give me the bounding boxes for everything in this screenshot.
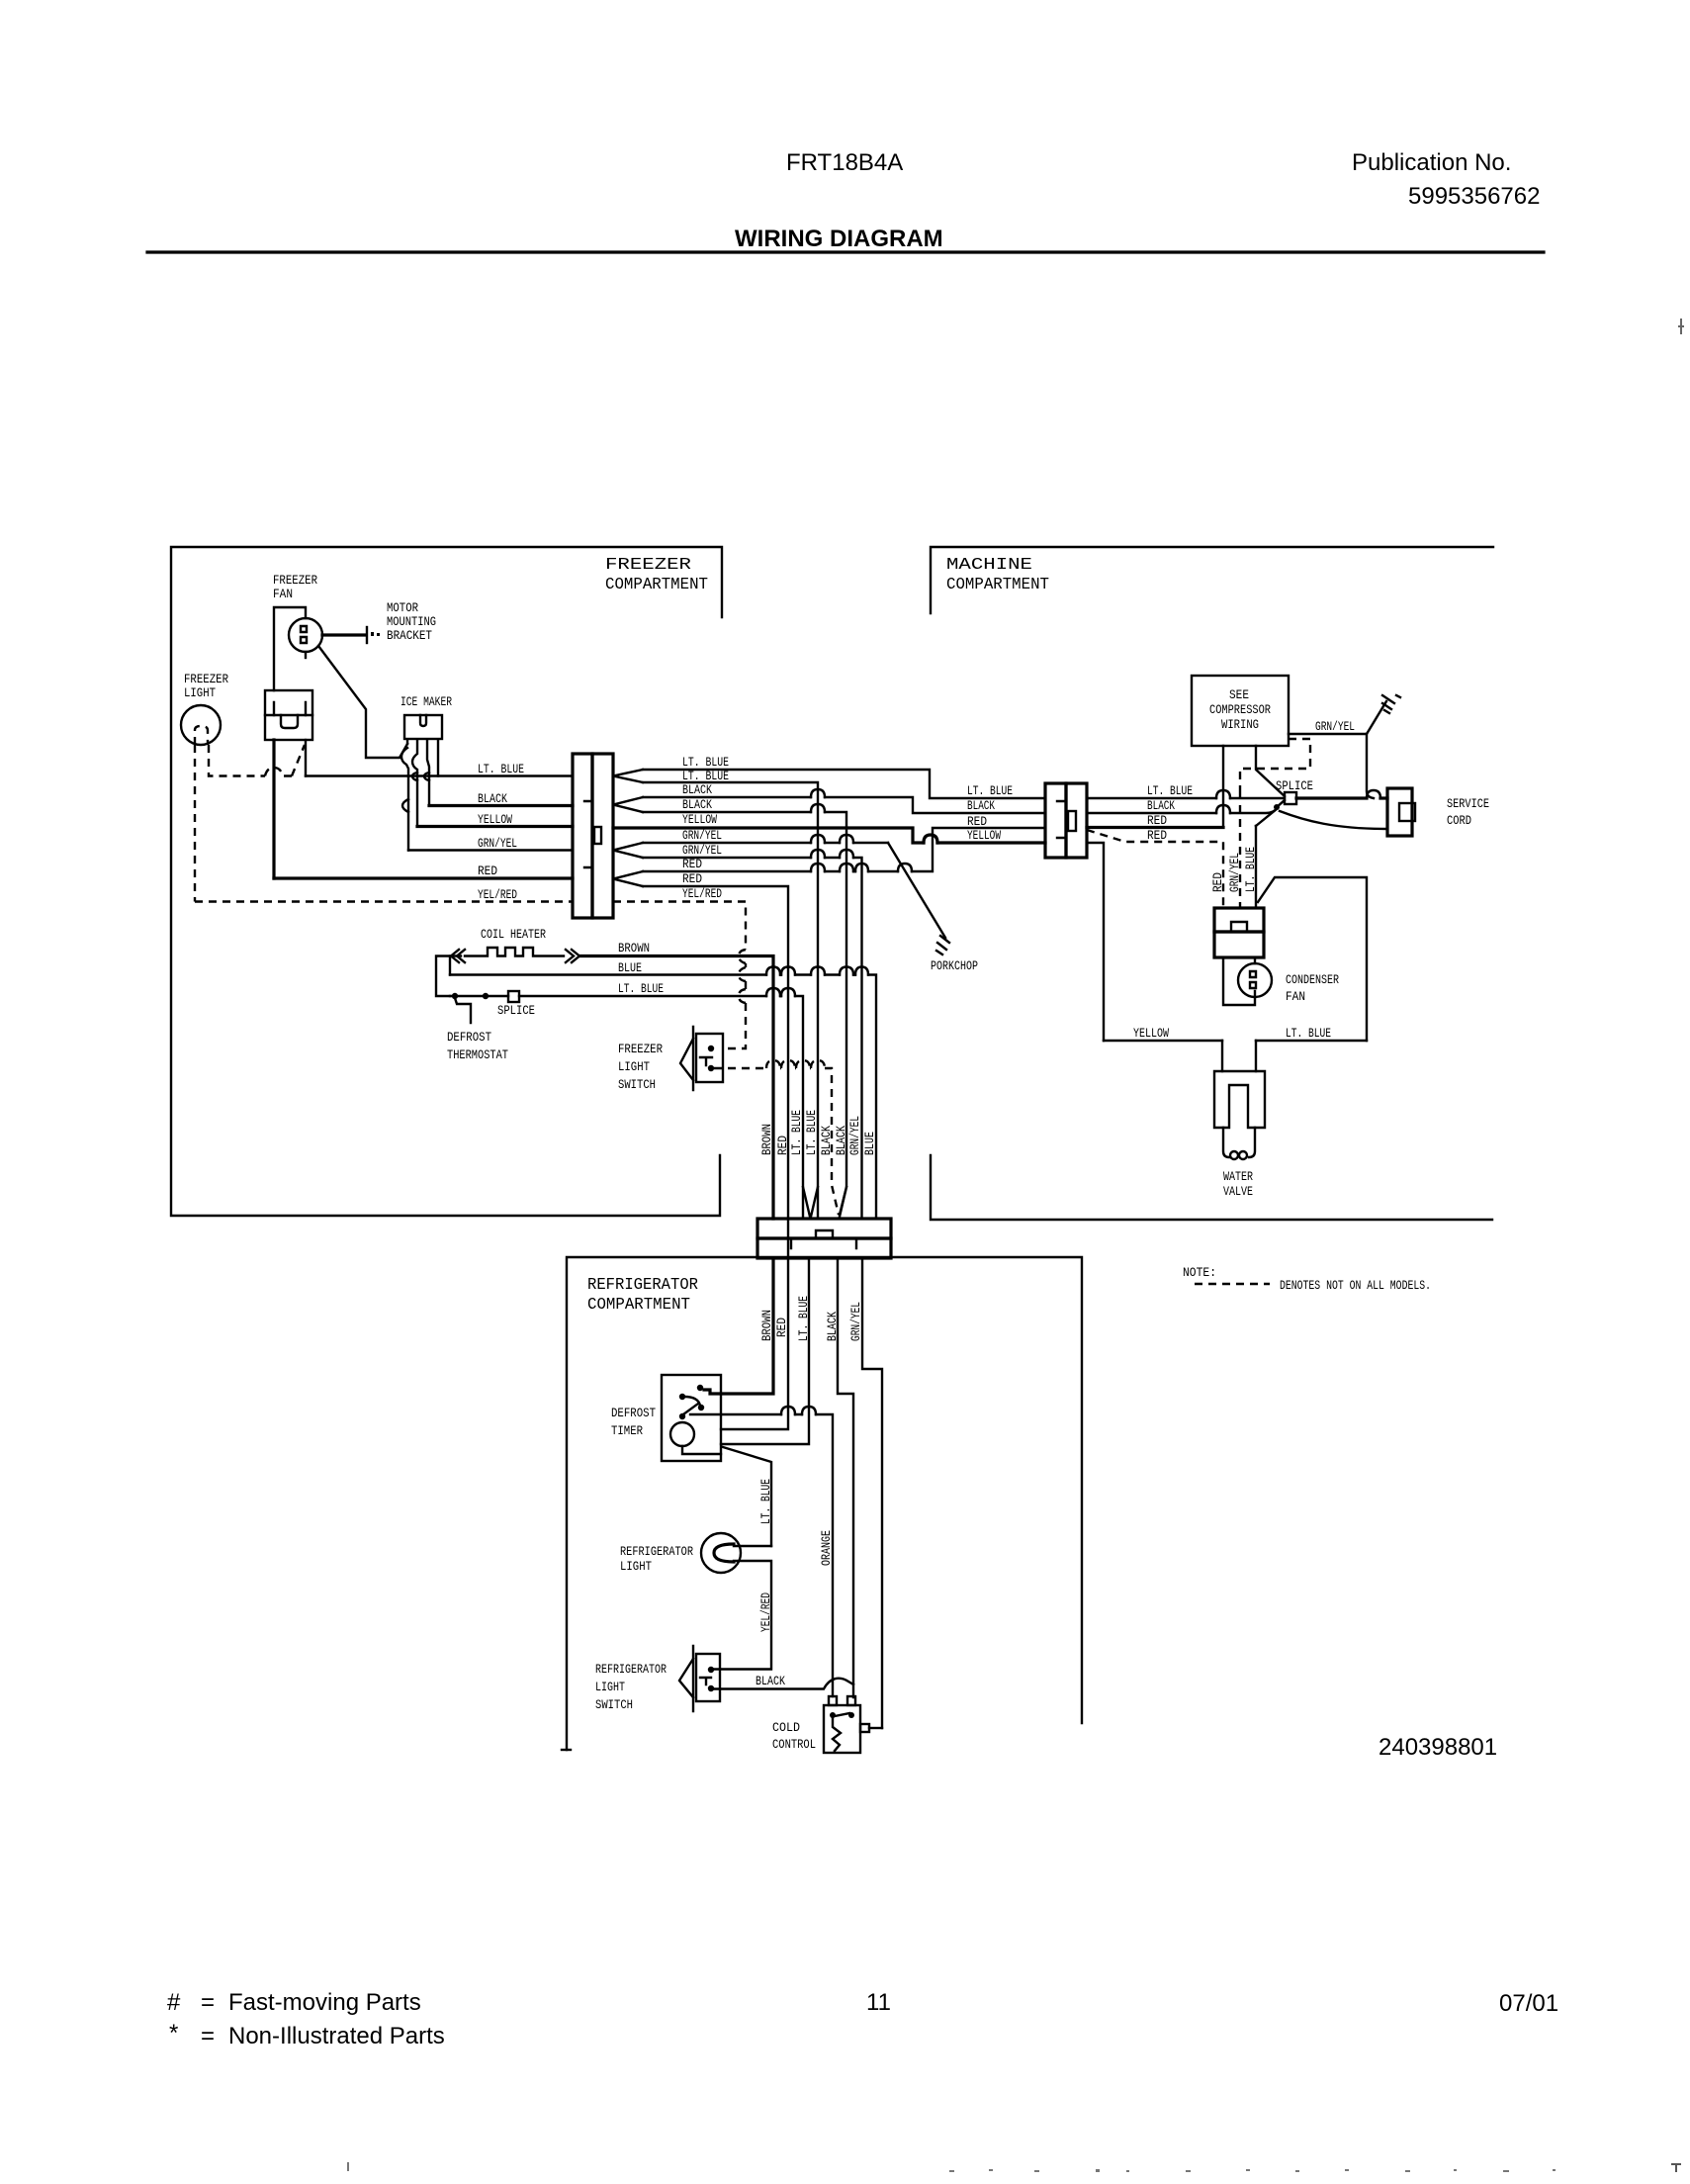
svg-text:COIL HEATER: COIL HEATER [481,927,546,942]
compressor lead vertical to splice [1256,746,1285,796]
svg-text:GRN/YEL: GRN/YEL [1315,719,1355,734]
svg-text:YELLOW: YELLOW [1133,1026,1169,1041]
yellow hop over red vertical [924,835,937,843]
service line from splice to service cord [1296,796,1387,799]
svg-text:LT. BLUE: LT. BLUE [478,762,524,776]
svg-text:SWITCH: SWITCH [618,1077,656,1092]
condenser fan connector [1214,908,1264,932]
yel/red dashed wire to freezer light switch [613,902,746,1049]
svg-text:YEL/RED: YEL/RED [758,1592,773,1632]
scanner noise right edge mark [1678,318,1684,334]
svg-text:FAN: FAN [1286,989,1305,1004]
freezer light switch contact mark [700,1057,712,1065]
freezer fan connector block [265,690,312,740]
lt.blue heater row hop arcs [766,988,780,996]
lower connector key notch [816,1230,833,1238]
svg-text:COMPARTMENT: COMPARTMENT [587,1296,690,1315]
water valve stem wires [1222,1041,1256,1071]
svg-text:CORD: CORD [1447,813,1471,828]
svg-text:PORKCHOP: PORKCHOP [931,958,978,973]
freezer light switch body [696,1034,723,1082]
sweeping black wire to service cord lower pin [1280,811,1387,829]
svg-text:COMPARTMENT: COMPARTMENT [946,576,1049,594]
svg-text:RED: RED [682,871,702,886]
junction dot defrost thermostat right [483,993,489,999]
freezer light dashed lead to yel/red wire [194,745,196,902]
freezer fan motor circle [289,618,322,652]
blue wire vertical stub [449,956,451,975]
svg-text:LIGHT: LIGHT [595,1680,625,1694]
svg-text:SWITCH: SWITCH [595,1697,633,1712]
svg-text:BLACK: BLACK [682,782,712,797]
porkchop hatch marks [936,936,949,955]
see compressor wiring box [1192,676,1289,746]
lower connector pin marks [791,1238,856,1248]
svg-text:BLACK: BLACK [478,791,507,806]
svg-text:SEE: SEE [1229,687,1249,702]
porkchop diagonal lead [888,843,945,938]
svg-text:GRN/YEL: GRN/YEL [478,836,517,851]
red wire machine right [1087,826,1223,829]
svg-text:THERMOSTAT: THERMOSTAT [447,1047,508,1062]
ice maker pin 3 wire to black row [427,740,429,806]
svg-text:BLACK: BLACK [819,1126,834,1155]
cold control top pins [829,1696,837,1705]
compressor dashed grn/yel path [1240,739,1310,791]
svg-text:BLACK: BLACK [834,1126,848,1155]
cold control terminal dots [830,1712,836,1718]
svg-text:240398801: 240398801 [1379,1734,1497,1761]
svg-text:LT. BLUE: LT. BLUE [804,1110,819,1155]
svg-text:BROWN: BROWN [618,941,650,955]
svg-text:COMPARTMENT: COMPARTMENT [605,576,708,594]
black wire row (freezer side) [429,804,573,807]
cold control bellows zigzag [833,1718,841,1751]
fan connector pin marks [274,702,306,715]
brown wire down to defrost timer [704,1258,773,1394]
lower harness connector block [757,1219,891,1238]
ice maker pin 2 wire to yellow row [412,740,417,827]
grn/yel wire 1 to porkchop [643,842,888,844]
ice maker key notch [420,715,426,726]
svg-text:DENOTES NOT ON ALL MODELS.: DENOTES NOT ON ALL MODELS. [1280,1278,1431,1293]
switch terminal dots [708,1667,714,1673]
switch contact mark [700,1678,711,1684]
coil heater disconnect arrows left [451,950,465,962]
freezer light switch terminal dots [708,1046,714,1051]
lt. blue wire down to timer and refrigerator light [721,1258,809,1444]
coil heater element [465,948,564,956]
diagonal from junction down to condenser lt.blue [1256,809,1277,826]
fan connector left pin wire down to red row [272,740,275,878]
wedge splice lt.blue pair [613,770,643,782]
lt. blue wire 2 down to refrigerator [643,782,818,1218]
black wire 1 to machine compartment [643,797,1045,813]
pin 2 hop arc [412,773,417,780]
svg-text:BLUE: BLUE [862,1132,877,1155]
motor mounting bracket lead [322,633,366,636]
svg-text:YELLOW: YELLOW [478,812,512,827]
grn/yel chassis ground wire [1289,701,1386,734]
machine connector pin marks [1057,801,1066,838]
wedge splice grn/yel pair [613,843,643,858]
svg-text:ORANGE: ORANGE [819,1530,834,1566]
freezer light bulb circle [181,705,221,745]
switch output dashed hop arcs [766,1060,780,1068]
machine harness connector block [1045,783,1066,858]
svg-text:YEL/RED: YEL/RED [682,886,722,901]
coil heater disconnect arrows right [566,950,579,962]
orange wire hop arcs [781,1407,795,1414]
black wire 1 hop over lt.blue2 vertical [811,789,825,797]
timer lever [683,1404,698,1414]
svg-text:LIGHT: LIGHT [620,1559,652,1574]
svg-text:DEFROST: DEFROST [611,1406,656,1420]
grn/yel drop to service line [1367,734,1374,798]
svg-text:BLACK: BLACK [682,797,712,812]
red wire 1 up to machine compartment [643,828,1045,871]
blue wire row to bundle [450,975,876,1220]
svg-text:REFRIGERATOR: REFRIGERATOR [587,1276,698,1295]
cold control body [824,1705,860,1753]
svg-text:GRN/YEL: GRN/YEL [848,1302,863,1341]
svg-text:5995356762: 5995356762 [1408,183,1540,210]
svg-text:COLD: COLD [772,1720,800,1735]
splice square [1285,792,1296,804]
svg-text:YEL/RED: YEL/RED [478,887,517,902]
lt. blue wire 1 to machine compartment [643,770,1045,798]
machine compartment border [931,547,1493,613]
fan motor diagonal feed to ice maker [318,646,407,758]
condenser connector key notch [1231,922,1247,932]
svg-text:CONTROL: CONTROL [772,1737,816,1752]
grn/yel wire 2 down to refrigerator [643,858,862,1218]
svg-text:RED: RED [478,864,497,878]
svg-text:LT. BLUE: LT. BLUE [758,1479,773,1524]
header rule line [147,250,1544,253]
diagonal from junction to splice [1277,800,1285,807]
dashed grn/yel vertical to condenser connector [1239,791,1241,908]
refrigerator light switch lever [679,1659,693,1697]
svg-text:FRT18B4A: FRT18B4A [786,149,903,176]
svg-text:RED: RED [1147,813,1167,828]
compressor red lead vertical [1222,746,1224,828]
svg-text:REFRIGERATOR: REFRIGERATOR [620,1544,693,1559]
water valve body [1214,1071,1265,1128]
svg-text:LT. BLUE: LT. BLUE [618,981,664,996]
red wire down to defrost timer [721,1258,788,1429]
svg-text:REFRIGERATOR: REFRIGERATOR [595,1662,667,1677]
dashed diagonal to fan connector pin [292,745,305,776]
grn/yel wire down with jog [862,1258,882,1728]
svg-text:11: 11 [866,1989,891,2016]
freezer fan motor winding symbol [301,626,307,643]
svg-text:DEFROST: DEFROST [447,1030,491,1045]
svg-text:GRN/YEL: GRN/YEL [682,828,722,843]
svg-text:LT. BLUE: LT. BLUE [789,1110,804,1155]
svg-text:Fast-moving Parts: Fast-moving Parts [228,1989,421,2016]
loop from condenser lt.blue around to water valve [1258,877,1367,1041]
svg-text:RED: RED [1210,872,1225,892]
svg-text:Publication No.: Publication No. [1352,149,1511,176]
svg-text:RED: RED [682,857,702,871]
fan connector key notch [281,715,298,728]
svg-text:CONDENSER: CONDENSER [1286,972,1339,987]
svg-text:LT. BLUE: LT. BLUE [1147,783,1193,798]
lt. blue wire machine right [1087,797,1285,799]
svg-text:LT. BLUE: LT. BLUE [1286,1026,1331,1041]
defrost timer box [662,1375,721,1461]
svg-text:LT. BLUE: LT. BLUE [682,755,729,770]
ice maker pin 4 wire joining lt.blue row [437,740,439,776]
black bundle wires converge to connector pin [840,1187,846,1217]
wedge splice black pair [613,797,643,812]
ice maker body [404,715,442,739]
black wire from switch to cold control [714,1679,853,1689]
freezer light bulb element (dashed) [195,726,208,745]
yellow loop leg from connector [1087,843,1104,1041]
svg-text:LIGHT: LIGHT [618,1059,650,1074]
chassis ground hatch marks [1382,695,1394,713]
refrigerator light switch plate [692,1646,694,1711]
black wire 2 down to refrigerator [643,812,846,1215]
lt.blue bundle wires converge to connector pin [803,1187,818,1217]
machine connector key notch [1068,811,1076,831]
lt. blue branch diagonal to refrigerator light [723,1447,771,1546]
timer contact arc [684,1397,700,1406]
svg-text:BROWN: BROWN [759,1124,774,1155]
red wire 2 down to refrigerator [643,886,788,1258]
svg-text:BLACK: BLACK [967,798,995,813]
junction dot defrost thermostat left [452,993,458,999]
svg-text:WIRING: WIRING [1221,717,1259,732]
pin 1 hop arcs [402,799,408,812]
svg-text:SERVICE: SERVICE [1447,796,1489,811]
motor mounting bracket symbol [366,627,368,643]
service line hop at grn/yel junction [1367,790,1380,798]
svg-text:BLUE: BLUE [618,960,642,975]
pin 3 hop arc [424,773,429,780]
svg-text:NOTE:: NOTE: [1183,1265,1216,1280]
connector key marks [584,801,592,867]
black wire machine right [1087,808,1277,813]
red dashed wire machine right [1087,830,1223,908]
bottom loop wires [1104,1040,1367,1042]
svg-text:LT. BLUE: LT. BLUE [967,783,1013,798]
dashed hop over fan wire [265,768,292,776]
wedge splice red pair [613,871,643,886]
svg-text:GRN/YEL: GRN/YEL [847,1116,862,1155]
svg-text:FREEZER: FREEZER [184,672,228,686]
refrigerator light circle [701,1533,741,1573]
freezer fan wiring loop [274,607,306,690]
svg-text:WATER: WATER [1223,1169,1253,1184]
timer orange output wire [690,1414,833,1696]
condenser fan motor circle [1238,963,1272,997]
condenser fan motor winding symbol [1250,971,1256,988]
cold control contact lever [835,1713,849,1716]
yellow wire row (freezer side) [417,825,573,828]
svg-text:MOTOR: MOTOR [387,600,418,615]
grn/yel wire row (freezer side) [408,849,573,851]
refrigerator light switch body [696,1654,720,1701]
scanner noise bottom row [347,2162,1556,2172]
svg-text:SPLICE: SPLICE [497,1003,535,1018]
svg-text:GRN/YEL: GRN/YEL [1227,853,1242,892]
svg-text:COMPRESSOR: COMPRESSOR [1209,702,1271,717]
svg-text:YELLOW: YELLOW [967,828,1001,843]
svg-text:BRACKET: BRACKET [387,628,432,643]
svg-text:WIRING DIAGRAM: WIRING DIAGRAM [735,226,943,252]
svg-text:SPLICE: SPLICE [1276,778,1313,793]
ice maker pin 1 wire to grn/yel row [401,740,408,851]
svg-text:LT. BLUE: LT. BLUE [796,1296,811,1341]
service cord connector [1387,788,1412,836]
svg-text:=: = [201,2023,215,2049]
condenser fan leads [1223,957,1255,1005]
bottom left border tick [562,1749,571,1751]
freezer light dashed lead to lt.blue wire [209,745,265,776]
svg-text:GRN/YEL: GRN/YEL [682,843,722,858]
defrost thermostat lead [455,998,471,1023]
svg-text:*: * [169,2020,178,2047]
svg-text:VALVE: VALVE [1223,1184,1253,1199]
svg-text:RED: RED [775,1136,790,1155]
junction dot at splice feeds [1274,804,1280,810]
grn/yel into cold control side pin [869,1727,882,1729]
svg-text:FREEZER: FREEZER [618,1042,663,1056]
blue row hop arcs over bundle verticals [766,967,780,975]
svg-text:FAN: FAN [273,587,293,601]
lt. blue wire row (freezer side) [306,774,573,776]
refrigerator compartment border [567,1257,1082,1750]
svg-text:BLACK: BLACK [756,1674,785,1688]
cold control side pin [860,1724,869,1732]
timer motor lead to bottom [682,1446,721,1454]
svg-text:07/01: 07/01 [1499,1990,1558,2017]
scanner noise T mark bottom right [1671,2164,1681,2172]
brown wire row to bundle [579,956,773,1220]
yel/red dashed wire row (freezer side) [195,900,573,902]
svg-text:MOUNTING: MOUNTING [387,614,436,629]
light terminal wires [714,1546,771,1670]
timer terminal dots [697,1385,703,1391]
freezer light switch lever [680,1039,693,1080]
svg-text:RED: RED [774,1318,789,1337]
svg-text:RED: RED [1147,828,1167,843]
svg-text:ICE MAKER: ICE MAKER [400,694,452,709]
dashed hops over heater rows [739,950,746,963]
svg-text:LT. BLUE: LT. BLUE [1243,847,1258,892]
svg-text:TIMER: TIMER [611,1423,643,1438]
svg-text:RED: RED [967,814,987,829]
svg-text:FREEZER: FREEZER [273,573,317,588]
freezer harness connector block [573,754,592,918]
svg-text:#: # [167,1989,181,2016]
timer motor circle [670,1422,694,1446]
red wire row (freezer side) [274,876,573,879]
coil heater left loop wire [436,956,461,997]
svg-text:LT. BLUE: LT. BLUE [682,769,729,783]
freezer light switch output dashed wire to bundle [714,1068,839,1215]
svg-text:=: = [201,1989,215,2016]
fan connector right pin wire to lt.blue row [305,740,307,776]
freezer light switch mounting plate [692,1027,694,1090]
svg-text:Non-Illustrated Parts: Non-Illustrated Parts [228,2023,445,2049]
lt.blue vertical to condenser connector [1255,826,1257,908]
black wire down with jog [838,1258,853,1697]
yellow wire to machine compartment [613,828,1045,843]
svg-text:MACHINE: MACHINE [946,556,1032,575]
lt. blue heater wire row to bundle [450,996,803,1219]
freezer compartment border [171,547,722,1216]
svg-text:LIGHT: LIGHT [184,685,216,700]
svg-text:YELLOW: YELLOW [682,812,717,827]
water valve coil leads [1223,1128,1255,1157]
water valve solenoid circles [1230,1151,1238,1159]
svg-text:BLACK: BLACK [1147,798,1175,813]
splice square on lt.blue heater wire [508,991,519,1002]
svg-text:FREEZER: FREEZER [605,556,691,575]
refrigerator light bulb element [714,1544,734,1562]
svg-text:BROWN: BROWN [759,1310,774,1341]
svg-text:BLACK: BLACK [825,1312,840,1341]
